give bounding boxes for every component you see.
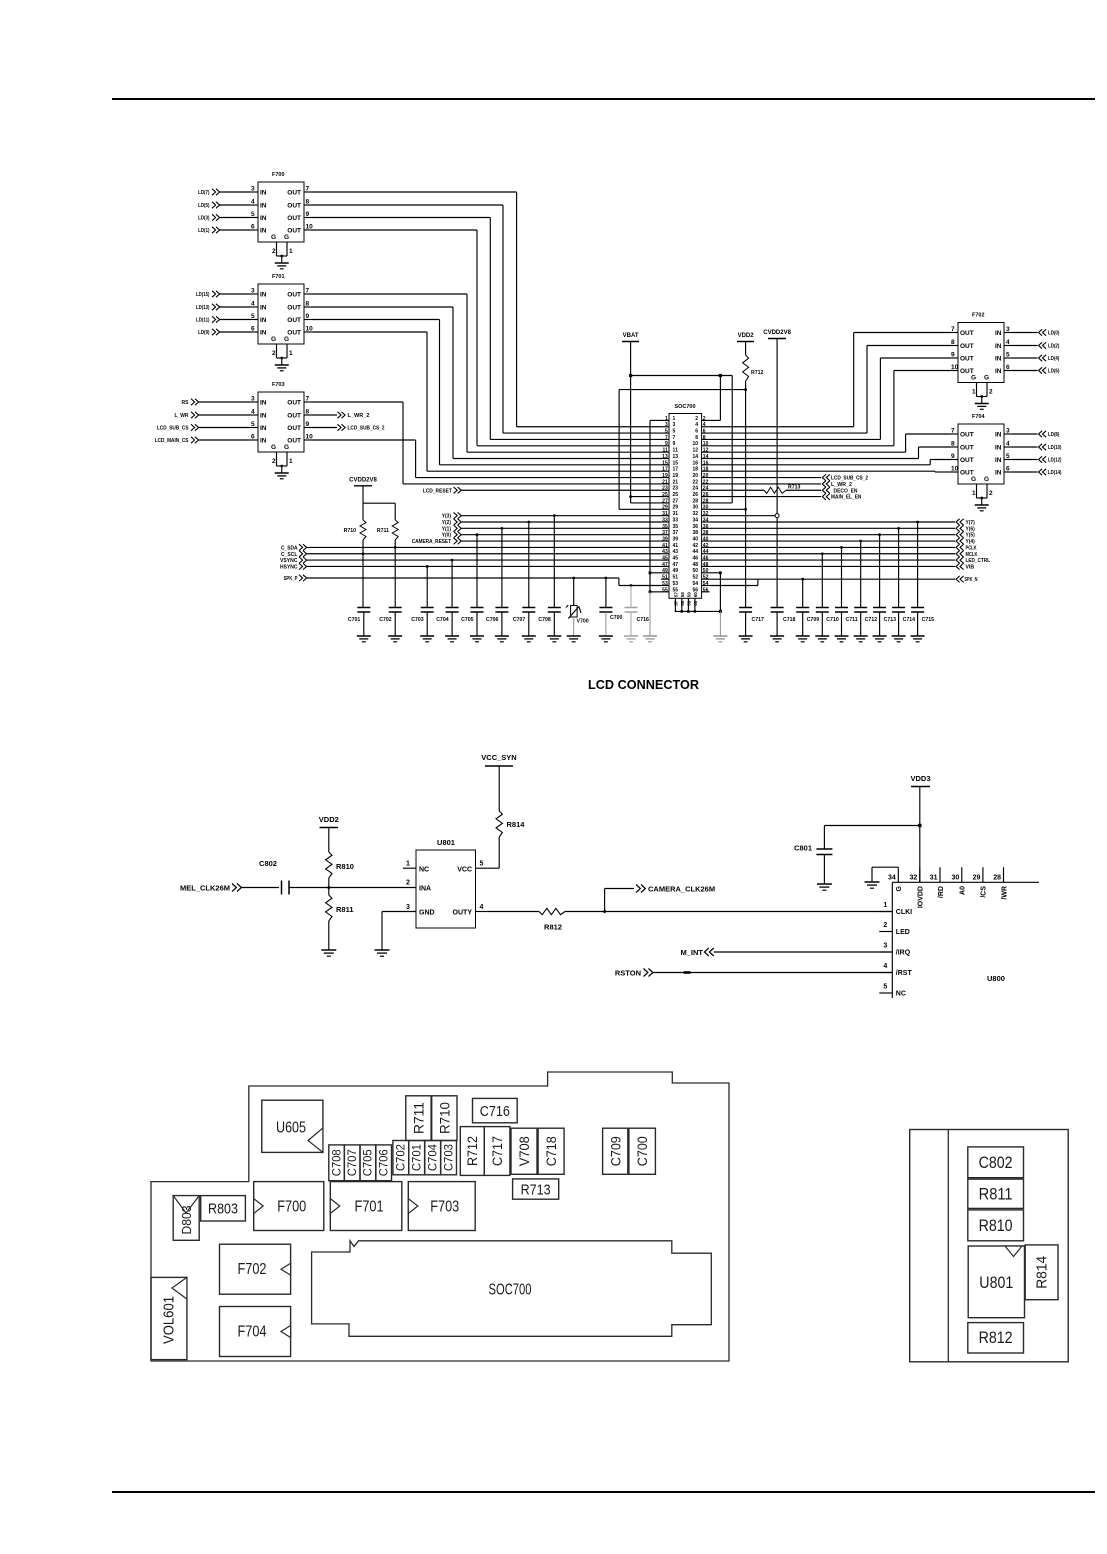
- svg-text:C701: C701: [348, 617, 361, 623]
- svg-text:6: 6: [251, 434, 255, 441]
- svg-text:G: G: [271, 336, 276, 343]
- svg-text:C802: C802: [259, 859, 277, 868]
- svg-text:8: 8: [306, 301, 310, 308]
- svg-text:28: 28: [692, 498, 698, 504]
- svg-text:7: 7: [673, 435, 676, 441]
- svg-text:6: 6: [251, 326, 255, 333]
- svg-text:C718: C718: [544, 1136, 559, 1166]
- svg-text:R710: R710: [344, 528, 357, 534]
- svg-text:52: 52: [692, 575, 698, 581]
- svg-text:R713: R713: [788, 485, 801, 491]
- svg-text:VIB: VIB: [966, 564, 975, 570]
- svg-text:48: 48: [692, 562, 698, 568]
- svg-text:5: 5: [665, 429, 668, 435]
- svg-text:43: 43: [662, 549, 668, 555]
- svg-text:/IRQ: /IRQ: [896, 950, 911, 957]
- svg-text:IOVDD: IOVDD: [918, 886, 925, 908]
- svg-text:8: 8: [306, 199, 310, 206]
- svg-text:IN: IN: [995, 368, 1002, 375]
- svg-text:F704: F704: [238, 1324, 267, 1341]
- svg-text:2: 2: [695, 416, 698, 422]
- svg-text:58: 58: [680, 592, 685, 598]
- svg-text:11: 11: [662, 448, 668, 454]
- svg-text:32: 32: [692, 511, 698, 517]
- svg-text:R712: R712: [751, 370, 764, 376]
- svg-text:C716: C716: [480, 1103, 510, 1120]
- svg-text:VDD3: VDD3: [910, 774, 930, 783]
- svg-text:OUT: OUT: [287, 190, 301, 197]
- svg-text:LD(14): LD(14): [1048, 470, 1062, 476]
- svg-text:1: 1: [406, 861, 410, 868]
- svg-text:C703: C703: [441, 1144, 455, 1171]
- svg-text:C709: C709: [608, 1136, 623, 1166]
- svg-text:29: 29: [673, 505, 679, 511]
- svg-text:4: 4: [883, 963, 887, 970]
- svg-text:CAMERA_RESET: CAMERA_RESET: [412, 539, 452, 545]
- svg-text:11: 11: [673, 448, 679, 454]
- svg-text:40: 40: [692, 536, 698, 542]
- svg-text:C718: C718: [783, 617, 796, 623]
- svg-text:IN: IN: [995, 432, 1002, 439]
- svg-text:48: 48: [703, 562, 709, 568]
- svg-text:C717: C717: [752, 617, 765, 623]
- svg-text:23: 23: [662, 486, 668, 492]
- svg-text:24: 24: [692, 486, 698, 492]
- svg-text:F702: F702: [972, 313, 985, 319]
- svg-text:LCD_RESET: LCD_RESET: [423, 488, 453, 494]
- svg-text:35: 35: [673, 524, 679, 530]
- svg-text:39: 39: [673, 536, 679, 542]
- svg-text:4: 4: [1006, 339, 1010, 346]
- svg-text:38: 38: [703, 530, 709, 536]
- svg-text:17: 17: [662, 467, 668, 473]
- svg-text:U801: U801: [437, 838, 455, 847]
- svg-text:L_WR_2: L_WR_2: [831, 482, 852, 488]
- svg-text:IN: IN: [260, 228, 267, 235]
- svg-text:Y(4): Y(4): [966, 539, 975, 545]
- svg-text:OUT: OUT: [287, 400, 301, 407]
- svg-text:R812: R812: [979, 1329, 1013, 1347]
- svg-text:VOL601: VOL601: [162, 1296, 178, 1344]
- svg-text:31: 31: [930, 875, 938, 882]
- svg-text:30: 30: [703, 505, 709, 511]
- svg-text:53: 53: [673, 581, 679, 587]
- svg-text:1: 1: [289, 350, 293, 357]
- svg-text:R812: R812: [544, 923, 562, 932]
- svg-text:IN: IN: [260, 292, 267, 299]
- svg-text:/RST: /RST: [896, 970, 913, 977]
- svg-text:MEL_CLK26M: MEL_CLK26M: [180, 884, 230, 893]
- svg-text:32: 32: [703, 511, 709, 517]
- svg-text:18: 18: [692, 467, 698, 473]
- svg-text:2: 2: [989, 389, 993, 396]
- svg-text:49: 49: [662, 568, 668, 574]
- svg-text:C704: C704: [426, 1144, 440, 1171]
- svg-text:3: 3: [251, 288, 255, 295]
- svg-text:M_INT: M_INT: [681, 948, 704, 957]
- svg-text:C706: C706: [377, 1149, 391, 1176]
- svg-text:1: 1: [972, 490, 976, 497]
- svg-text:27: 27: [662, 498, 668, 504]
- svg-text:IN: IN: [995, 470, 1002, 477]
- svg-text:51: 51: [673, 575, 679, 581]
- svg-text:OUT: OUT: [960, 445, 974, 452]
- svg-text:35: 35: [662, 524, 668, 530]
- svg-text:GND: GND: [419, 910, 435, 917]
- svg-text:49: 49: [673, 568, 679, 574]
- svg-text:IN: IN: [260, 203, 267, 210]
- svg-text:45: 45: [673, 556, 679, 562]
- svg-text:Y(6): Y(6): [966, 526, 975, 532]
- svg-text:41: 41: [662, 543, 668, 549]
- svg-text:DECO_EN: DECO_EN: [834, 488, 858, 494]
- svg-text:6: 6: [1006, 466, 1010, 473]
- svg-text:RSTON: RSTON: [615, 969, 641, 978]
- svg-text:R814: R814: [1035, 1256, 1051, 1289]
- svg-text:LD(7): LD(7): [198, 190, 210, 196]
- svg-text:37: 37: [662, 530, 668, 536]
- svg-text:F701: F701: [355, 1199, 384, 1216]
- svg-text:33: 33: [662, 517, 668, 523]
- svg-text:IN: IN: [260, 317, 267, 324]
- svg-text:R713: R713: [521, 1182, 551, 1199]
- svg-text:NC: NC: [419, 867, 429, 874]
- svg-text:50: 50: [703, 568, 709, 574]
- svg-text:31: 31: [662, 511, 668, 517]
- svg-text:4: 4: [251, 409, 255, 416]
- svg-text:LCD_SUB_CS_2: LCD_SUB_CS_2: [348, 426, 385, 432]
- svg-text:VBAT: VBAT: [623, 333, 639, 339]
- svg-text:LD(2): LD(2): [1048, 344, 1060, 350]
- svg-text:LCD CONNECTOR: LCD CONNECTOR: [588, 677, 700, 692]
- svg-text:G: G: [971, 476, 976, 483]
- svg-text:OUT: OUT: [287, 413, 301, 420]
- svg-text:26: 26: [692, 492, 698, 498]
- svg-text:V708: V708: [517, 1136, 532, 1166]
- svg-text:IN: IN: [995, 457, 1002, 464]
- svg-text:6: 6: [1006, 364, 1010, 371]
- svg-text:NC: NC: [896, 991, 906, 998]
- svg-text:19: 19: [673, 473, 679, 479]
- svg-text:C707: C707: [345, 1149, 359, 1176]
- svg-text:30: 30: [692, 505, 698, 511]
- svg-text:R811: R811: [979, 1185, 1013, 1203]
- svg-text:R803: R803: [208, 1201, 238, 1218]
- svg-text:G: G: [284, 336, 289, 343]
- svg-text:22: 22: [692, 479, 698, 485]
- svg-text:G: G: [284, 234, 289, 241]
- svg-text:25: 25: [673, 492, 679, 498]
- svg-text:39: 39: [662, 536, 668, 542]
- svg-text:V700: V700: [577, 619, 589, 625]
- svg-text:LCD_SUB_CS_2: LCD_SUB_CS_2: [831, 476, 868, 482]
- svg-text:7: 7: [951, 428, 955, 435]
- svg-text:/CS: /CS: [981, 886, 988, 898]
- svg-text:2: 2: [272, 458, 276, 465]
- svg-text:12: 12: [703, 448, 709, 454]
- svg-text:7: 7: [665, 435, 668, 441]
- svg-text:C708: C708: [538, 617, 551, 623]
- svg-text:IN: IN: [260, 425, 267, 432]
- svg-text:L_WR: L_WR: [175, 413, 189, 419]
- svg-text:C716: C716: [637, 617, 650, 623]
- svg-text:LD(9): LD(9): [198, 330, 210, 336]
- svg-text:47: 47: [673, 562, 679, 568]
- svg-text:C_SDA: C_SDA: [281, 545, 298, 551]
- svg-text:9: 9: [665, 441, 668, 447]
- svg-text:OUT: OUT: [287, 215, 301, 222]
- svg-text:10: 10: [951, 364, 959, 371]
- svg-text:2: 2: [406, 880, 410, 887]
- svg-text:C711: C711: [846, 617, 858, 623]
- svg-text:RS: RS: [182, 400, 189, 406]
- svg-text:36: 36: [703, 524, 709, 530]
- svg-text:VSYNC: VSYNC: [280, 558, 298, 564]
- svg-text:3: 3: [251, 396, 255, 403]
- svg-text:50: 50: [692, 568, 698, 574]
- svg-text:43: 43: [673, 549, 679, 555]
- svg-text:C_SCL: C_SCL: [281, 552, 298, 558]
- svg-text:R712: R712: [465, 1136, 480, 1166]
- svg-text:14: 14: [703, 454, 709, 460]
- svg-text:46: 46: [703, 556, 709, 562]
- svg-text:/WR: /WR: [1001, 886, 1008, 900]
- svg-text:2: 2: [989, 490, 993, 497]
- svg-text:31: 31: [673, 511, 679, 517]
- svg-text:R711: R711: [410, 1102, 426, 1134]
- svg-text:12: 12: [692, 448, 698, 454]
- svg-text:SOC700: SOC700: [489, 1282, 532, 1299]
- svg-text:40: 40: [703, 536, 709, 542]
- svg-text:9: 9: [673, 441, 676, 447]
- svg-text:56: 56: [703, 587, 709, 593]
- svg-text:LD(8): LD(8): [1048, 432, 1060, 438]
- svg-text:U605: U605: [276, 1120, 306, 1137]
- svg-text:29: 29: [973, 875, 981, 882]
- svg-text:A0: A0: [960, 886, 967, 895]
- svg-text:53: 53: [662, 581, 668, 587]
- svg-text:LD(15): LD(15): [196, 292, 210, 298]
- svg-text:10: 10: [306, 434, 314, 441]
- svg-text:37: 37: [673, 530, 679, 536]
- svg-text:C705: C705: [361, 1149, 375, 1176]
- svg-text:46: 46: [692, 556, 698, 562]
- svg-text:23: 23: [673, 486, 679, 492]
- svg-text:OUT: OUT: [960, 356, 974, 363]
- svg-text:8: 8: [951, 441, 955, 448]
- svg-text:7: 7: [306, 186, 310, 193]
- svg-text:F700: F700: [277, 1199, 306, 1216]
- svg-text:2: 2: [883, 922, 887, 929]
- svg-text:29: 29: [662, 505, 668, 511]
- svg-text:IN: IN: [260, 438, 267, 445]
- svg-text:Y(3): Y(3): [442, 514, 451, 520]
- svg-text:1: 1: [665, 416, 668, 422]
- svg-text:G: G: [271, 444, 276, 451]
- svg-text:OUT: OUT: [960, 330, 974, 337]
- svg-text:OUT: OUT: [960, 432, 974, 439]
- svg-text:59: 59: [687, 592, 692, 598]
- svg-text:SOC700: SOC700: [674, 404, 695, 410]
- svg-text:18: 18: [703, 467, 709, 473]
- svg-text:15: 15: [673, 460, 679, 466]
- svg-text:5: 5: [1006, 453, 1010, 460]
- svg-text:IN: IN: [260, 400, 267, 407]
- svg-text:C710: C710: [826, 617, 839, 623]
- svg-text:60: 60: [693, 592, 698, 598]
- svg-text:LD(1): LD(1): [198, 228, 210, 234]
- svg-text:6: 6: [703, 429, 706, 435]
- svg-text:3: 3: [883, 943, 887, 950]
- svg-text:OUT: OUT: [287, 203, 301, 210]
- svg-text:C702: C702: [394, 1144, 408, 1171]
- svg-text:22: 22: [703, 479, 709, 485]
- svg-text:9: 9: [951, 453, 955, 460]
- svg-text:HSYNC: HSYNC: [280, 564, 298, 570]
- svg-text:57: 57: [674, 592, 679, 598]
- svg-text:Y(5): Y(5): [966, 533, 975, 539]
- svg-text:30: 30: [952, 875, 960, 882]
- svg-text:38: 38: [692, 530, 698, 536]
- svg-text:2: 2: [272, 248, 276, 255]
- svg-text:5: 5: [1006, 352, 1010, 359]
- svg-text:IN: IN: [995, 343, 1002, 350]
- svg-text:8: 8: [306, 409, 310, 416]
- svg-text:5: 5: [883, 984, 887, 991]
- svg-text:8: 8: [951, 339, 955, 346]
- svg-text:3: 3: [406, 904, 410, 911]
- svg-text:R711: R711: [377, 528, 389, 534]
- svg-text:4: 4: [703, 422, 706, 428]
- svg-text:28: 28: [703, 498, 709, 504]
- svg-text:42: 42: [692, 543, 698, 549]
- svg-text:4: 4: [251, 199, 255, 206]
- svg-text:G: G: [971, 375, 976, 382]
- svg-text:33: 33: [673, 517, 679, 523]
- svg-text:2: 2: [272, 350, 276, 357]
- svg-text:9: 9: [306, 421, 310, 428]
- svg-text:34: 34: [703, 517, 709, 523]
- svg-text:9: 9: [306, 313, 310, 320]
- svg-text:21: 21: [662, 479, 668, 485]
- svg-text:25: 25: [662, 492, 668, 498]
- svg-text:G: G: [284, 444, 289, 451]
- svg-text:VDD2: VDD2: [319, 815, 339, 824]
- svg-text:3: 3: [665, 422, 668, 428]
- svg-text:CLKI: CLKI: [896, 909, 912, 916]
- svg-text:44: 44: [703, 549, 709, 555]
- svg-text:13: 13: [662, 454, 668, 460]
- svg-text:C705: C705: [461, 617, 474, 623]
- svg-text:4: 4: [251, 301, 255, 308]
- svg-text:C717: C717: [490, 1136, 505, 1166]
- svg-text:10: 10: [692, 441, 698, 447]
- svg-text:F703: F703: [272, 382, 285, 388]
- svg-text:LD(11): LD(11): [196, 318, 210, 324]
- svg-text:2: 2: [703, 416, 706, 422]
- svg-text:4: 4: [480, 904, 484, 911]
- svg-text:C700: C700: [610, 615, 623, 621]
- svg-text:52: 52: [703, 575, 709, 581]
- svg-text:6: 6: [251, 224, 255, 231]
- svg-text:OUT: OUT: [287, 330, 301, 337]
- svg-text:1: 1: [289, 248, 293, 255]
- svg-text:42: 42: [703, 543, 709, 549]
- svg-text:C700: C700: [635, 1136, 650, 1166]
- svg-text:F701: F701: [272, 274, 285, 280]
- svg-text:7: 7: [306, 396, 310, 403]
- svg-text:VCC: VCC: [457, 867, 472, 874]
- svg-text:17: 17: [673, 467, 679, 473]
- svg-text:55: 55: [662, 587, 668, 593]
- svg-text:G: G: [896, 885, 903, 891]
- svg-text:Y(1): Y(1): [442, 526, 451, 532]
- svg-text:51: 51: [662, 575, 668, 581]
- svg-text:F702: F702: [238, 1261, 267, 1278]
- svg-text:VDD2: VDD2: [738, 333, 755, 339]
- svg-text:/RD: /RD: [938, 886, 945, 898]
- svg-text:9: 9: [306, 211, 310, 218]
- svg-text:C702: C702: [379, 617, 392, 623]
- svg-text:R811: R811: [336, 905, 354, 914]
- svg-text:MAIN_EL_EN: MAIN_EL_EN: [831, 495, 861, 501]
- svg-text:C703: C703: [411, 617, 424, 623]
- svg-text:3: 3: [673, 422, 676, 428]
- svg-text:L_WR_2: L_WR_2: [348, 413, 370, 419]
- svg-text:1: 1: [972, 389, 976, 396]
- svg-text:44: 44: [692, 549, 698, 555]
- svg-text:15: 15: [662, 460, 668, 466]
- svg-text:OUT: OUT: [287, 292, 301, 299]
- svg-text:C707: C707: [513, 617, 526, 623]
- svg-text:IN: IN: [260, 190, 267, 197]
- svg-text:3: 3: [251, 186, 255, 193]
- svg-text:Y(0): Y(0): [442, 533, 451, 539]
- svg-text:10: 10: [306, 326, 314, 333]
- svg-text:8: 8: [703, 435, 706, 441]
- svg-text:54: 54: [703, 581, 709, 587]
- svg-text:U801: U801: [979, 1274, 1013, 1292]
- svg-text:32: 32: [910, 875, 918, 882]
- svg-text:LD(6): LD(6): [1048, 369, 1060, 375]
- svg-text:1: 1: [673, 416, 676, 422]
- svg-text:IN: IN: [995, 445, 1002, 452]
- svg-text:LD(3): LD(3): [198, 216, 210, 222]
- svg-text:36: 36: [692, 524, 698, 530]
- svg-text:CVDD2V8: CVDD2V8: [763, 330, 791, 336]
- svg-text:24: 24: [703, 486, 709, 492]
- svg-text:58: 58: [680, 600, 685, 606]
- svg-text:SPK_N: SPK_N: [964, 577, 977, 583]
- svg-text:LD(10): LD(10): [1048, 445, 1062, 451]
- svg-text:R810: R810: [979, 1217, 1013, 1235]
- svg-text:OUT: OUT: [287, 305, 301, 312]
- svg-text:10: 10: [703, 441, 709, 447]
- svg-text:57: 57: [674, 600, 679, 606]
- svg-text:C714: C714: [903, 617, 916, 623]
- svg-text:IN: IN: [260, 305, 267, 312]
- svg-text:LD(13): LD(13): [196, 305, 210, 311]
- svg-text:5: 5: [251, 313, 255, 320]
- svg-text:LD(5): LD(5): [198, 203, 210, 209]
- svg-text:1: 1: [883, 902, 887, 909]
- svg-text:4: 4: [1006, 441, 1010, 448]
- svg-text:34: 34: [692, 517, 698, 523]
- svg-text:45: 45: [662, 556, 668, 562]
- svg-text:21: 21: [673, 479, 679, 485]
- svg-text:26: 26: [703, 492, 709, 498]
- svg-text:4: 4: [695, 422, 698, 428]
